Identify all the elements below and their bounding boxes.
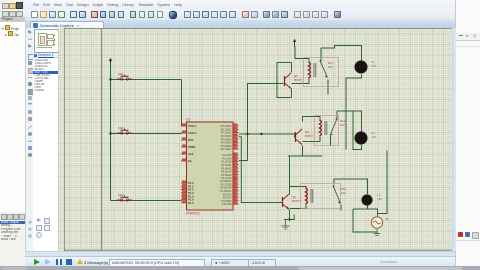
lamp L1 [355, 60, 377, 73]
wire Q1 emitter down [291, 89, 293, 98]
svg-text:L1: L1 [372, 60, 376, 64]
button SW2 [117, 126, 132, 134]
wire L3 return loop [353, 209, 378, 232]
junction branch1 [109, 78, 111, 80]
AC source V1 [371, 217, 389, 228]
wire Q2 collector up to coil RL2 [303, 117, 321, 122]
wire branch1 drop to XTAL1 [181, 80, 183, 127]
wire RL1 contact to L1 top [321, 46, 362, 61]
wire L1 bottom return [346, 75, 362, 150]
wire Q3 emitter right stub [284, 215, 294, 220]
svg-text:SW1: SW1 [118, 72, 124, 76]
transistor Q3 [283, 194, 301, 210]
power terminal +5V [109, 58, 112, 65]
sheet border left [64, 29, 66, 252]
wire RL1 contact bottom [327, 80, 329, 95]
IC U1 pin names [188, 124, 232, 206]
junction stage3 feed [260, 133, 262, 135]
wire L2 loop top [346, 110, 353, 112]
wire branch2 [111, 133, 182, 135]
wire RL3 contact bottom [340, 205, 342, 211]
wire left rail [110, 63, 112, 201]
relay RL3 [306, 185, 347, 204]
wire RL1 coil bottom [292, 79, 310, 84]
svg-text:12V: 12V [372, 135, 377, 139]
ground AC [374, 229, 381, 235]
power terminal +12V stage1 [293, 39, 296, 47]
IC U1 body [187, 122, 234, 210]
svg-text:12V: 12V [341, 191, 346, 195]
sheet border bottom [64, 249, 455, 251]
junction branch2 [109, 132, 111, 134]
svg-text:12V: 12V [328, 65, 333, 69]
wire +12V to coil RL1 [295, 47, 309, 63]
relay RL2 [320, 118, 346, 136]
relay RL2 body [315, 116, 339, 146]
wire RL3 contact top to L3 [334, 179, 368, 194]
junction at x247 [246, 133, 248, 135]
wire Q3 collector up to coil RL3 [290, 187, 307, 195]
relay RL1 [309, 60, 334, 78]
svg-text:SW2: SW2 [118, 126, 124, 130]
wire U1 to Q2 base [248, 134, 295, 138]
wire stage2 to stage3 link [289, 156, 291, 187]
wire U1 to Q1 base [239, 84, 284, 135]
svg-text:XTAL2: XTAL2 [188, 131, 197, 135]
svg-text:RST: RST [188, 138, 194, 142]
lamp L3 [362, 193, 383, 205]
wire RL2 contact drop [330, 136, 332, 146]
wire stage2 rail [288, 155, 322, 157]
svg-text:12V: 12V [378, 197, 383, 201]
svg-text:RL3: RL3 [341, 187, 347, 191]
ground Q3 [282, 220, 290, 230]
svg-text:RL1: RL1 [328, 61, 334, 65]
wire RL1 contact top feed [320, 48, 322, 61]
wire Q2 emitter to rail [302, 146, 304, 157]
wire right rail to AC [378, 151, 388, 214]
svg-text:V1: V1 [385, 217, 389, 221]
svg-text:Q2: Q2 [305, 130, 309, 134]
wire branch3 [111, 200, 182, 202]
wire branch1 [111, 79, 182, 81]
svg-text:BC547: BC547 [294, 78, 302, 82]
svg-text:EA: EA [188, 159, 192, 163]
relay RL3 body [301, 184, 341, 209]
svg-text:SW3: SW3 [118, 193, 124, 197]
svg-text:PSEN: PSEN [188, 145, 195, 149]
wire RL2 coil bottom [303, 137, 321, 142]
svg-text:P0.7/AD7: P0.7/AD7 [221, 148, 232, 151]
sheet inner frame line [100, 29, 102, 250]
wire L2 bottom loop [353, 111, 362, 150]
svg-text:P1.6: P1.6 [188, 201, 194, 205]
svg-text:12V: 12V [372, 64, 377, 68]
svg-text:XTAL1: XTAL1 [188, 124, 197, 128]
svg-text:Q3: Q3 [292, 195, 296, 199]
wire RL2 contact to L2 top [337, 111, 362, 132]
svg-text:12V: 12V [340, 123, 345, 127]
wire Q1 collector up [291, 63, 293, 73]
svg-text:BC547: BC547 [305, 134, 313, 138]
svg-text:AT89C51: AT89C51 [186, 212, 200, 216]
wire RL3 coil bottom [290, 205, 307, 209]
button SW1 [117, 72, 132, 80]
svg-text:L2: L2 [372, 131, 376, 135]
button SW3 [117, 193, 132, 201]
transistor Q2 [296, 129, 314, 145]
svg-text:ALE: ALE [188, 152, 194, 156]
svg-text:L3: L3 [378, 193, 382, 197]
wire Q3 emitter down [289, 210, 291, 220]
wire to Q3 base [239, 137, 282, 203]
sheet border top [64, 28, 455, 30]
svg-text:Q1: Q1 [294, 74, 298, 78]
relay RL1 body [304, 58, 339, 87]
wire RL2 contact top [336, 111, 338, 119]
svg-text:RL2: RL2 [340, 119, 346, 123]
transistor Q1 [285, 73, 303, 89]
IC U1 left pins [181, 123, 187, 202]
junction Q3 emitter [288, 218, 290, 220]
svg-text:BC547: BC547 [292, 199, 300, 203]
svg-text:U1: U1 [186, 118, 190, 122]
svg-text:P3.7/RD: P3.7/RD [222, 203, 232, 206]
wire U1 pin to riser [239, 134, 248, 161]
wire L3 bottom to AC [353, 205, 378, 216]
lamp L2 [355, 131, 377, 144]
IC U1 right pins [233, 123, 239, 204]
wire Q1 bias loop [277, 63, 292, 98]
